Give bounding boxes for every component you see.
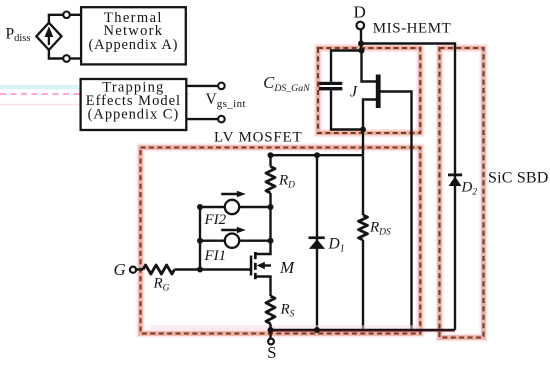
svg-text:D: D xyxy=(354,3,366,22)
wire J source to LV rail xyxy=(362,130,364,156)
wire FI2 right xyxy=(239,206,271,208)
dashed box LV MOSFET xyxy=(141,148,421,334)
diode D2 xyxy=(448,174,462,187)
dashed box SiC SBD xyxy=(440,48,484,338)
wire J drain stub xyxy=(362,51,377,82)
junction node FI1 left xyxy=(197,238,203,244)
junction node MIS-HEMT top xyxy=(359,48,365,54)
wire M body tail xyxy=(263,264,272,266)
wire G lead xyxy=(136,268,143,270)
transistor J bar xyxy=(376,75,381,109)
wire LV top rail xyxy=(271,154,364,156)
wire bottom S rail xyxy=(271,329,456,331)
terminal S xyxy=(268,339,274,345)
current source Pdiss diamond xyxy=(36,23,61,50)
wire top rail to SiC SBD branch xyxy=(361,44,455,331)
svg-text:FI2: FI2 xyxy=(204,212,227,228)
junction node gate xyxy=(197,267,203,273)
wire FI left vertical xyxy=(199,207,201,270)
dashed box MIS-HEMT xyxy=(318,48,420,133)
trapping terminal circle top xyxy=(218,83,225,90)
current source FI1 xyxy=(221,227,246,248)
box Thermal Network xyxy=(81,7,186,64)
svg-text:(Appendix C): (Appendix C) xyxy=(88,107,180,123)
wire thermal bottom xyxy=(49,50,63,59)
wire RS bottom lead xyxy=(269,324,271,330)
junction node J source xyxy=(360,127,366,133)
junction node FI1 right xyxy=(268,238,274,244)
artifact cyan band xyxy=(0,85,79,90)
svg-text:SiC SBD: SiC SBD xyxy=(488,170,549,187)
junction node RD top xyxy=(268,152,274,158)
artifact magenta dashed line xyxy=(0,93,190,95)
artifact pink band above rail xyxy=(150,325,420,329)
wire trapping top xyxy=(186,85,218,87)
wire RDS bottom lead xyxy=(362,240,364,330)
junction node D rail xyxy=(358,41,364,47)
transistor M gate bar xyxy=(250,256,253,276)
wire J gate to S rail xyxy=(381,92,412,331)
junction node FI2 left xyxy=(197,204,203,210)
wire FI1 left xyxy=(200,239,225,241)
wire RD top lead xyxy=(269,155,271,166)
terminal G xyxy=(130,267,136,273)
transistor M body arrow xyxy=(257,262,265,270)
wire thermal top xyxy=(49,15,63,23)
current source FI2 xyxy=(221,191,246,215)
wire trapping bottom xyxy=(186,118,218,120)
capacitor C_DS_GaN plates xyxy=(319,82,343,91)
svg-text:J: J xyxy=(350,84,358,101)
resistor RDS xyxy=(359,215,368,240)
junction node S rail left xyxy=(268,327,274,333)
wire thermal top right xyxy=(70,14,81,16)
svg-text:FI1: FI1 xyxy=(204,248,227,264)
wire capacitor branch upper xyxy=(331,51,362,82)
wire gate run xyxy=(175,268,251,270)
artifact pink line xyxy=(0,104,79,106)
resistor RD xyxy=(266,167,275,194)
wire drain branch xyxy=(256,193,271,254)
box Trapping Effects Model xyxy=(81,79,187,130)
thermal terminal circle top xyxy=(63,12,70,19)
trapping terminal circle bottom xyxy=(218,116,225,123)
terminal D xyxy=(357,22,365,30)
svg-text:MIS-HEMT: MIS-HEMT xyxy=(373,21,452,37)
wire M source stub xyxy=(256,277,271,297)
thermal terminal circle bottom xyxy=(63,55,70,62)
svg-text:M: M xyxy=(279,258,295,277)
wire J source stub xyxy=(363,100,376,130)
svg-text:(Appendix A): (Appendix A) xyxy=(89,37,179,53)
svg-text:G: G xyxy=(114,260,126,279)
transistor M channel segments xyxy=(254,252,257,279)
wire RDS top lead xyxy=(362,155,364,215)
resistor RG xyxy=(143,265,175,274)
junction node FI2 right xyxy=(268,204,274,210)
resistor RS xyxy=(266,296,275,324)
wire thermal bottom right xyxy=(70,57,81,59)
diode D1 branch wire xyxy=(316,155,318,330)
wire D stem xyxy=(360,30,362,44)
wire MIS-HEMT inner top node xyxy=(360,44,362,51)
junction node D1 bottom xyxy=(314,327,320,333)
diode D1 xyxy=(309,236,326,249)
wire capacitor branch lower xyxy=(331,90,363,129)
wire FI2 left xyxy=(200,206,225,208)
wire FI1 right xyxy=(239,239,271,241)
junction node D1 top xyxy=(314,152,320,158)
svg-text:LV MOSFET: LV MOSFET xyxy=(214,129,302,145)
wire S stem xyxy=(269,330,271,339)
svg-text:S: S xyxy=(267,343,276,362)
